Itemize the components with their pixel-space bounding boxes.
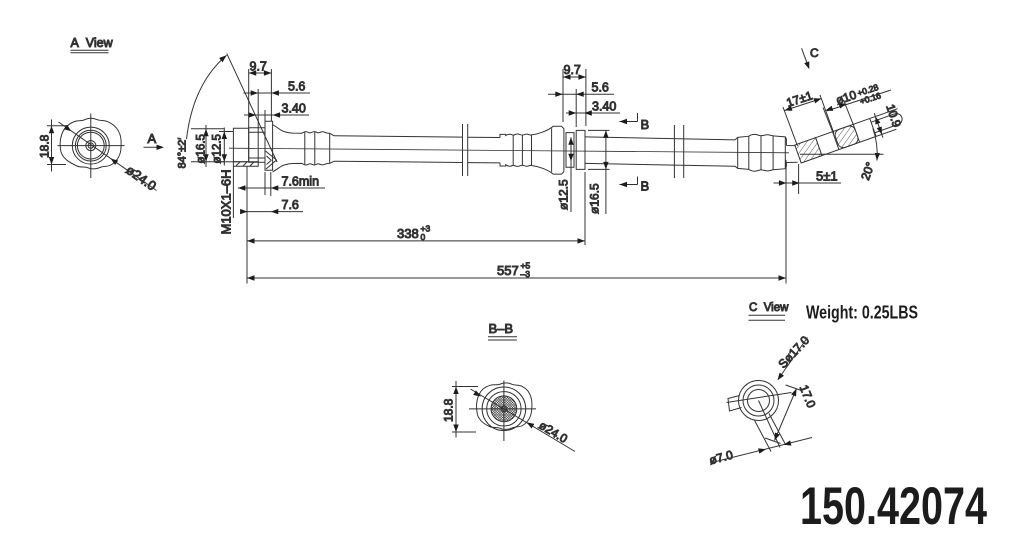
svg-text:B: B (641, 179, 650, 194)
svg-text:557: 557 (497, 263, 519, 278)
svg-text:ø16.5: ø16.5 (588, 183, 602, 214)
svg-text:5.6: 5.6 (288, 80, 305, 94)
svg-text:C View: C View (749, 302, 789, 314)
svg-text:ø7.0: ø7.0 (708, 448, 735, 468)
svg-text:17.0: 17.0 (797, 383, 819, 410)
svg-text:Sø17.0: Sø17.0 (775, 333, 812, 371)
svg-text:ø12.5: ø12.5 (557, 179, 571, 210)
svg-text:18.8: 18.8 (442, 398, 456, 422)
svg-text:5±1: 5±1 (816, 169, 838, 184)
svg-text:3.40: 3.40 (282, 102, 306, 116)
svg-text:5.6: 5.6 (592, 81, 609, 95)
svg-text:ø24.0: ø24.0 (123, 162, 159, 193)
svg-text:ø16.5: ø16.5 (196, 134, 208, 163)
svg-text:84°±2′: 84°±2′ (177, 138, 189, 169)
svg-text:17±1: 17±1 (785, 88, 815, 110)
svg-text:Weight: 0.25LBS: Weight: 0.25LBS (806, 303, 918, 323)
svg-text:18.8: 18.8 (38, 134, 52, 158)
svg-text:150.42074: 150.42074 (800, 477, 987, 536)
svg-text:M10X1–6H: M10X1–6H (219, 169, 234, 234)
svg-text:B–B: B–B (489, 321, 514, 336)
svg-text:338: 338 (397, 226, 419, 241)
svg-text:ø24.0: ø24.0 (536, 418, 570, 446)
svg-text:3.40: 3.40 (592, 100, 616, 114)
svg-text:B: B (641, 117, 650, 132)
svg-text:20°: 20° (858, 160, 877, 182)
svg-text:0: 0 (421, 232, 426, 242)
svg-text:ø12.5: ø12.5 (211, 134, 223, 163)
svg-text:–3: –3 (521, 269, 531, 279)
svg-text:ø10: ø10 (834, 88, 858, 108)
svg-text:A: A (148, 131, 157, 146)
svg-text:7.6: 7.6 (282, 198, 299, 212)
svg-text:9.7: 9.7 (564, 63, 581, 77)
svg-text:A View: A View (71, 36, 114, 50)
svg-text:C: C (810, 46, 819, 60)
svg-text:7.6min: 7.6min (282, 175, 320, 189)
svg-text:10.9: 10.9 (883, 102, 904, 129)
svg-text:9.7: 9.7 (250, 60, 267, 74)
